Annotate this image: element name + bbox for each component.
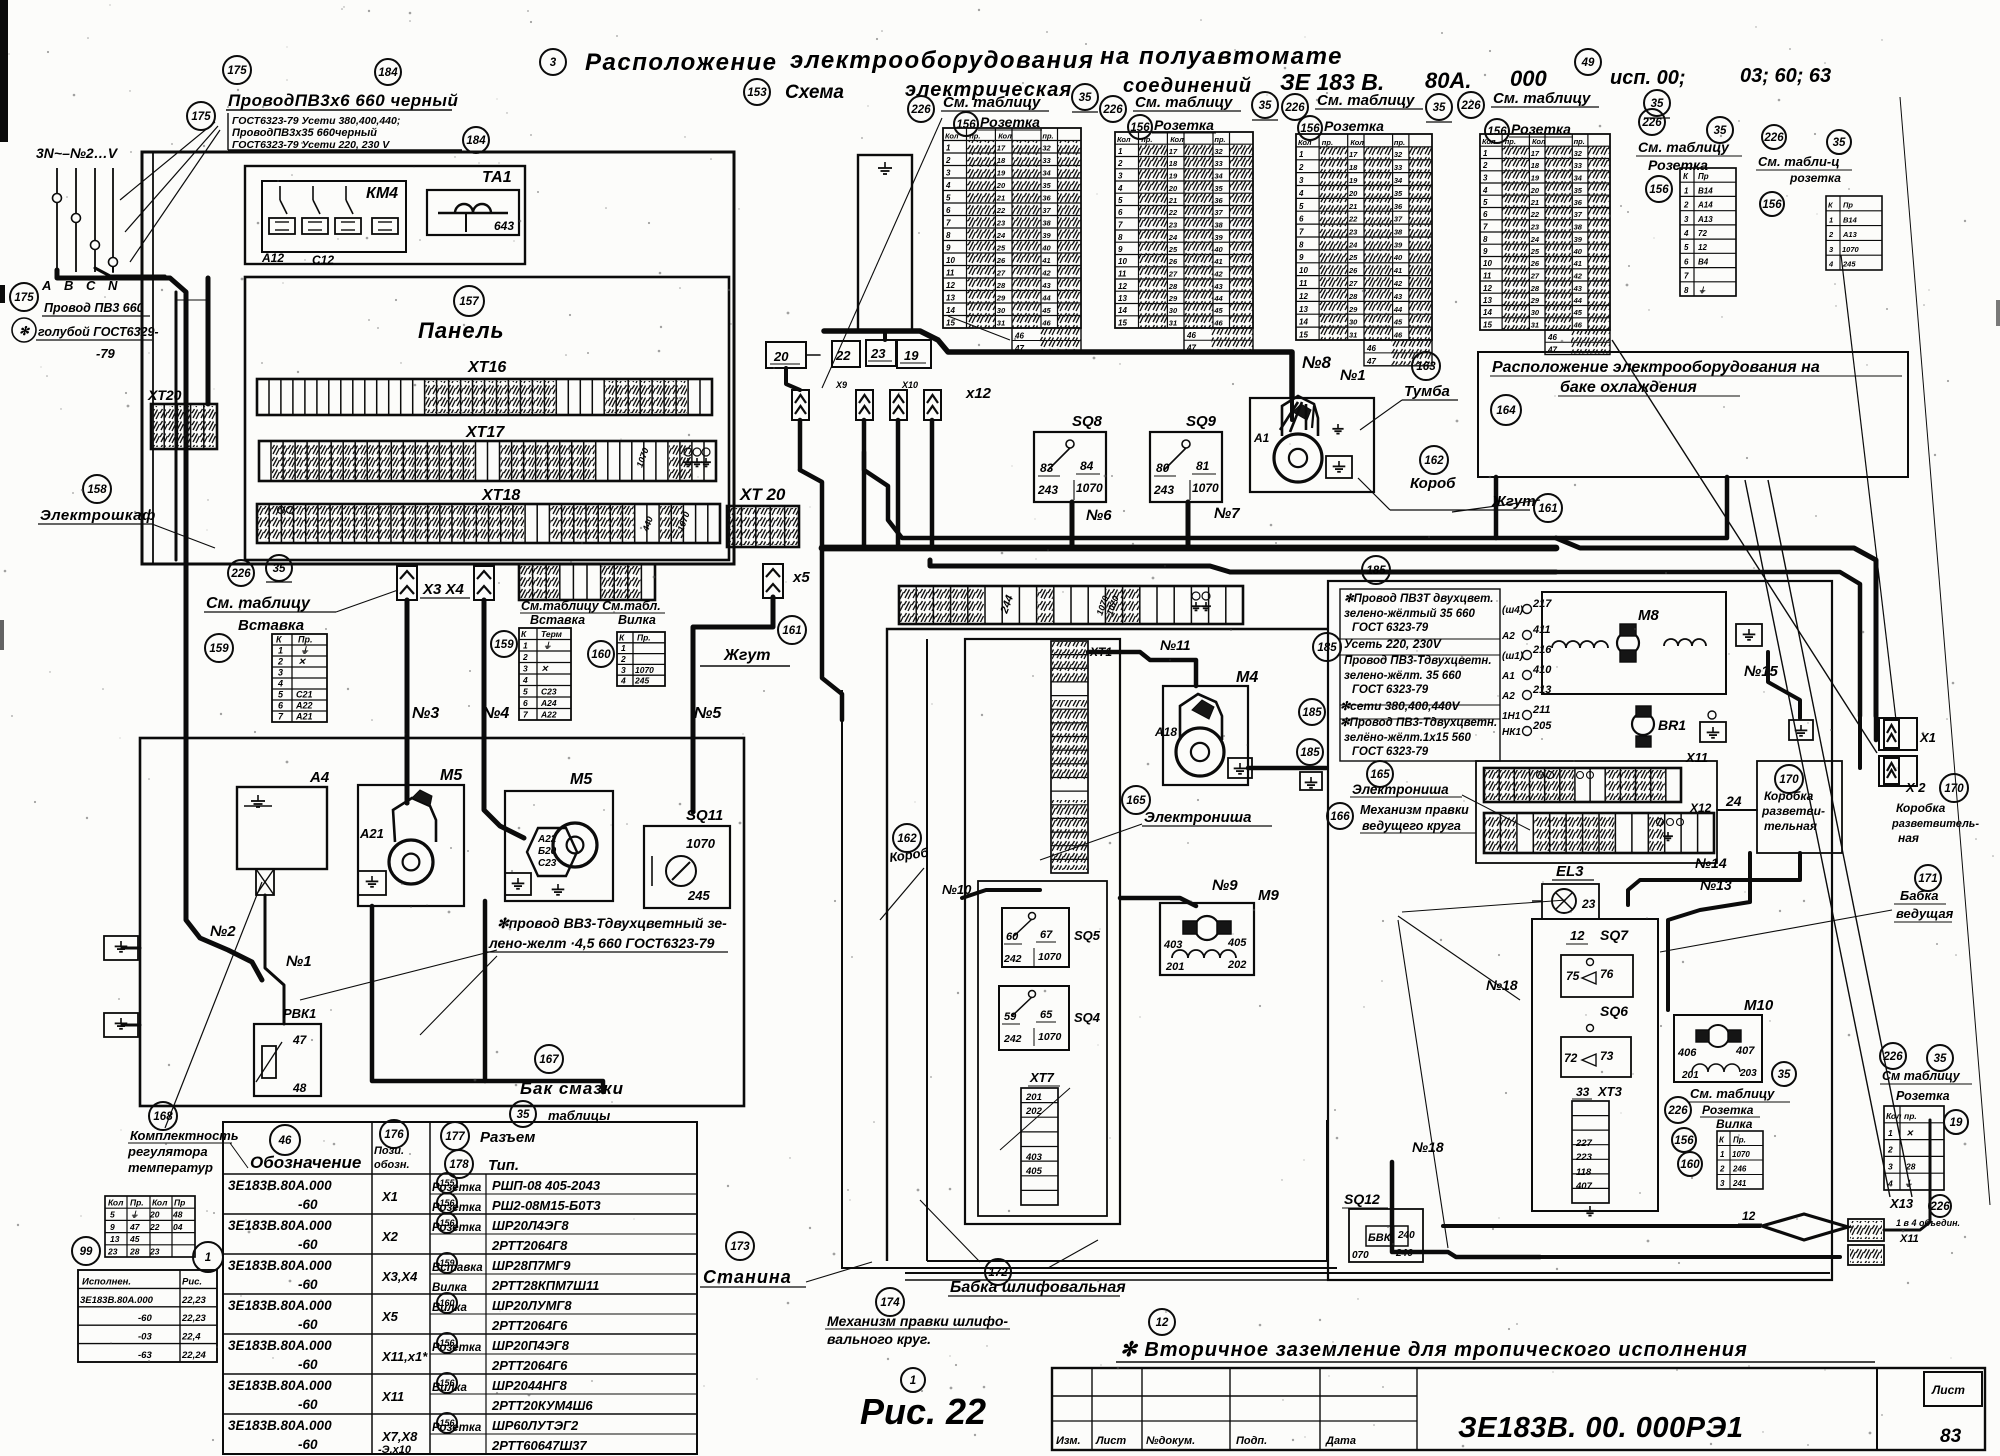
circle 35 M10 — [1772, 1062, 1796, 1086]
svg-text:45: 45 — [1393, 318, 1403, 327]
pin table T2 circle 226 — [1100, 96, 1126, 122]
terminal strip XT17 — [259, 441, 716, 481]
circle 1 — [193, 1242, 223, 1272]
svg-text:25: 25 — [1530, 247, 1540, 256]
svg-text:13: 13 — [110, 1234, 120, 1244]
svg-text:С12: С12 — [312, 253, 334, 267]
svg-text:000: 000 — [1510, 66, 1547, 91]
cooling tank note box — [1478, 352, 1908, 477]
svg-text:35: 35 — [1778, 1069, 1791, 1081]
svg-text:3Е183В.80А.000: 3Е183В.80А.000 — [228, 1298, 332, 1313]
terminal block XT20 left — [151, 404, 217, 449]
svg-text:29: 29 — [1168, 294, 1178, 303]
svg-text:См. таблицу: См. таблицу — [1317, 92, 1415, 109]
svg-text:Х2: Х2 — [381, 1229, 399, 1244]
svg-text:4: 4 — [277, 679, 283, 689]
svg-text:22,23: 22,23 — [181, 1295, 206, 1306]
svg-text:См таблицу: См таблицу — [1882, 1069, 1961, 1083]
svg-text:45: 45 — [1041, 306, 1051, 315]
svg-text:21: 21 — [1348, 202, 1357, 211]
svg-text:39: 39 — [1214, 233, 1223, 242]
label N2 — [210, 923, 236, 940]
svg-text:30: 30 — [997, 306, 1006, 315]
svg-text:166: 166 — [1330, 811, 1350, 823]
svg-text:-60: -60 — [298, 1397, 318, 1412]
svg-text:33: 33 — [1576, 1085, 1590, 1099]
svg-text:17: 17 — [1169, 147, 1178, 156]
svg-text:03; 60; 63: 03; 60; 63 — [1740, 65, 1831, 87]
svg-text:К: К — [619, 632, 625, 642]
stanina outer box — [842, 629, 1337, 1268]
label TA1 — [482, 169, 512, 186]
svg-text:22,23: 22,23 — [181, 1313, 206, 1324]
svg-text:Х13: Х13 — [1889, 1196, 1914, 1211]
svg-text:См. таблицу: См. таблицу — [1135, 94, 1233, 111]
svg-text:202: 202 — [1025, 1106, 1043, 1117]
switch SQ8 detail — [1037, 440, 1103, 500]
svg-text:Лист: Лист — [1931, 1383, 1965, 1397]
svg-text:12: 12 — [1118, 282, 1127, 291]
svg-text:403: 403 — [1025, 1152, 1043, 1163]
svg-text:14: 14 — [946, 306, 955, 315]
wire power to cabinet 2 — [95, 267, 176, 560]
wire N5 — [693, 597, 773, 812]
svg-text:18: 18 — [1349, 163, 1358, 172]
svg-text:Пр.: Пр. — [637, 632, 651, 642]
svg-text:ГОСТ6323-79 Усети 380,400,440;: ГОСТ6323-79 Усети 380,400,440; — [232, 115, 400, 127]
label 12 chev — [1738, 1209, 1762, 1224]
wire SQ9 drop — [1186, 502, 1191, 548]
pin table T4 rozetka — [1509, 121, 1573, 137]
label N18b — [1486, 977, 1518, 993]
svg-text:11: 11 — [1118, 270, 1127, 279]
svg-text:13: 13 — [1483, 296, 1492, 305]
svg-text:12: 12 — [1483, 284, 1492, 293]
svg-text:См. таблицу: См. таблицу — [206, 595, 311, 612]
svg-text:✕: ✕ — [298, 657, 306, 667]
svg-text:23: 23 — [1168, 221, 1178, 230]
svg-text:185: 185 — [1302, 707, 1322, 719]
svg-text:31: 31 — [1169, 319, 1177, 328]
svg-text:Вилка: Вилка — [432, 1382, 467, 1394]
circle 164 — [1491, 395, 1521, 425]
svg-text:226: 226 — [1460, 100, 1481, 112]
svg-text:7: 7 — [1299, 228, 1304, 237]
circle 156 T5 — [1646, 176, 1672, 202]
svg-text:168: 168 — [153, 1111, 173, 1123]
label N3 — [412, 705, 439, 722]
svg-text:22: 22 — [996, 206, 1006, 215]
svg-text:SQ7: SQ7 — [1600, 927, 1629, 943]
vstavka text a — [238, 617, 304, 634]
svg-text:35: 35 — [1214, 184, 1223, 193]
pin table T5 — [1680, 168, 1736, 296]
circle 166 — [1327, 803, 1353, 829]
svg-text:202: 202 — [1227, 959, 1246, 971]
svg-text:12: 12 — [1156, 1317, 1169, 1329]
svg-text:зелено-жёлтый 35 660: зелено-жёлтый 35 660 — [1344, 608, 1476, 620]
svg-text:ТА1: ТА1 — [482, 169, 512, 186]
svg-text:А14: А14 — [1697, 201, 1713, 210]
svg-text:Кол: Кол — [1117, 135, 1131, 144]
label A12 — [261, 251, 284, 265]
svg-text:22,4: 22,4 — [181, 1332, 201, 1343]
plug pin table 160 — [617, 632, 665, 686]
svg-text:ГОСТ 6323-79: ГОСТ 6323-79 — [1352, 684, 1429, 696]
tumba label — [1360, 383, 1458, 430]
svg-text:25: 25 — [996, 244, 1006, 253]
title block frame — [1052, 1368, 1985, 1450]
label M5a — [440, 767, 463, 784]
lubrication tank box — [140, 738, 744, 1106]
svg-text:Пр.: Пр. — [130, 1198, 144, 1208]
svg-text:23: 23 — [870, 346, 886, 361]
circle 165 right-trio — [1367, 761, 1393, 787]
circle 185d — [1297, 739, 1323, 765]
svg-text:15: 15 — [1118, 319, 1127, 328]
wire note VV3 — [487, 915, 728, 952]
svg-text:38: 38 — [1042, 219, 1051, 228]
svg-text:ШР20ЛУМГ8: ШР20ЛУМГ8 — [492, 1298, 572, 1313]
svg-text:Розетка: Розетка — [1154, 117, 1214, 133]
svg-text:Кол: Кол — [1482, 137, 1496, 146]
svg-text:2РТТ60647Ш37: 2РТТ60647Ш37 — [491, 1438, 587, 1453]
svg-text:178: 178 — [449, 1159, 469, 1171]
svg-text:3: 3 — [1299, 176, 1304, 185]
big table grid — [223, 1122, 697, 1454]
diagonal run 3 — [1768, 480, 1912, 1197]
label XT17 — [465, 424, 505, 441]
svg-text:3: 3 — [1118, 172, 1123, 181]
svg-text:173: 173 — [730, 1241, 750, 1253]
svg-text:-60: -60 — [298, 1317, 318, 1332]
svg-text:17: 17 — [997, 144, 1006, 153]
svg-text:№7: №7 — [1214, 505, 1240, 522]
wire note box — [228, 113, 462, 151]
svg-text:1: 1 — [1483, 149, 1488, 158]
label N13 — [1700, 877, 1732, 893]
svg-text:201: 201 — [1165, 961, 1184, 973]
komplekt text — [127, 1128, 248, 1175]
pin table right — [1884, 1106, 1944, 1190]
svg-text:SQ5: SQ5 — [1074, 928, 1101, 943]
svg-text:185: 185 — [1317, 642, 1337, 654]
svg-text:28: 28 — [1168, 282, 1178, 291]
svg-text:4: 4 — [1298, 189, 1304, 198]
label SQ4 — [1074, 1010, 1101, 1025]
diagonal run 5 — [1900, 97, 1990, 1205]
svg-text:-Э,х10: -Э,х10 — [378, 1444, 412, 1456]
label x12 — [965, 385, 992, 402]
svg-text:Механизм правки: Механизм правки — [1360, 803, 1469, 817]
svg-text:45: 45 — [1213, 306, 1223, 315]
circle 35 T5 — [1707, 117, 1733, 143]
svg-text:6: 6 — [1118, 208, 1123, 217]
svg-text:пр.: пр. — [969, 132, 980, 141]
label SQ6 — [1600, 1003, 1628, 1019]
svg-text:Станина: Станина — [703, 1267, 792, 1287]
svg-text:28: 28 — [996, 281, 1006, 290]
svg-text:BR1: BR1 — [1658, 717, 1686, 733]
svg-text:14: 14 — [1483, 308, 1492, 317]
svg-text:Х10: Х10 — [901, 380, 918, 390]
motor M5b box — [505, 791, 613, 901]
motor M9 box — [1160, 903, 1254, 975]
svg-text:Расположение электрооборудован: Расположение электрооборудования на — [1492, 359, 1820, 376]
fuse under A4 — [256, 869, 274, 895]
svg-text:ведущего круга: ведущего круга — [1362, 819, 1461, 833]
svg-text:10: 10 — [1299, 266, 1308, 275]
svg-text:(ш1): (ш1) — [1502, 651, 1524, 662]
label N9 — [1212, 877, 1238, 894]
svg-text:Розетка: Розетка — [1702, 1103, 1754, 1117]
svg-text:Пр.: Пр. — [1733, 1135, 1746, 1144]
svg-text:ХТ7: ХТ7 — [1029, 1070, 1055, 1085]
connector X1 right — [1879, 718, 1936, 750]
svg-text:Разъем: Разъем — [480, 1129, 535, 1146]
svg-text:Х11: Х11 — [1899, 1233, 1919, 1245]
svg-text:пр.: пр. — [1394, 138, 1405, 147]
label N4 — [482, 705, 509, 722]
svg-text:72: 72 — [1564, 1051, 1578, 1065]
wire 170 down — [1628, 853, 1800, 905]
pin table T2 circle 35 — [1252, 92, 1278, 120]
motor M9 symbol — [1163, 916, 1247, 973]
svg-text:45: 45 — [1573, 308, 1583, 317]
svg-text:См. табли-ц: См. табли-ц — [1758, 154, 1840, 169]
svg-text:3Е183В.80А.000: 3Е183В.80А.000 — [228, 1258, 332, 1273]
svg-text:№1: №1 — [1340, 367, 1366, 384]
svg-text:165: 165 — [1370, 769, 1390, 781]
circle 171 — [1915, 865, 1941, 891]
circle 185c — [1299, 699, 1325, 725]
circle 174 — [876, 1288, 904, 1316]
svg-text:405: 405 — [1227, 937, 1247, 949]
svg-text:Пр.: Пр. — [298, 635, 312, 645]
svg-text:45: 45 — [129, 1234, 140, 1244]
svg-text:40: 40 — [1213, 245, 1223, 254]
svg-text:29: 29 — [996, 294, 1006, 303]
title block number — [1458, 1412, 1744, 1444]
svg-text:1: 1 — [1299, 150, 1304, 159]
svg-text:24: 24 — [1168, 233, 1178, 242]
svg-text:47: 47 — [292, 1033, 308, 1047]
title circle 49 — [1575, 49, 1601, 75]
svg-text:83: 83 — [1040, 461, 1054, 475]
svg-text:Тумба: Тумба — [1404, 383, 1450, 400]
wire N10 — [962, 890, 1040, 898]
svg-text:24: 24 — [1348, 240, 1358, 249]
svg-text:пр.: пр. — [1214, 135, 1225, 144]
svg-text:Электрошкаф: Электрошкаф — [40, 507, 156, 524]
svg-text:12: 12 — [946, 281, 955, 290]
svg-text:20: 20 — [1348, 189, 1358, 198]
svg-text:32: 32 — [1214, 147, 1223, 156]
svg-text:1070: 1070 — [1732, 1150, 1750, 1159]
wire note circle 184a — [375, 59, 401, 85]
diagonal run 1 — [1612, 340, 1877, 753]
wire tank bottom run — [372, 901, 603, 1092]
svg-text:40: 40 — [1393, 253, 1403, 262]
device A4 box — [237, 787, 327, 869]
transformer TA1 box — [427, 190, 519, 235]
svg-text:тельная: тельная — [1764, 819, 1817, 833]
svg-text:Вилка: Вилка — [1716, 1117, 1753, 1131]
svg-text:34: 34 — [1042, 169, 1051, 178]
svg-text:✻сети 380,400,440V: ✻сети 380,400,440V — [1340, 699, 1460, 713]
svg-text:Обозначение: Обозначение — [250, 1153, 361, 1172]
tank ground stub 1 — [104, 936, 140, 960]
circle 19 right — [1944, 1110, 1968, 1134]
label C12 — [312, 253, 334, 267]
svg-text:43: 43 — [1393, 292, 1403, 301]
svg-text:SQ11: SQ11 — [686, 807, 723, 824]
pin table T2 see-table — [1133, 94, 1241, 111]
svg-text:42: 42 — [1041, 269, 1051, 278]
svg-text:2: 2 — [1482, 161, 1488, 170]
svg-text:-60: -60 — [298, 1437, 318, 1452]
title circle 153 — [744, 79, 770, 105]
rozetka right — [1896, 1089, 1950, 1103]
svg-text:3Е183В.80А.000: 3Е183В.80А.000 — [228, 1218, 332, 1233]
svg-text:201: 201 — [1025, 1092, 1042, 1103]
svg-text:6: 6 — [1299, 215, 1304, 224]
wire tumba feed — [1280, 398, 1314, 432]
mech label — [825, 1313, 1010, 1347]
svg-text:60: 60 — [1006, 931, 1019, 943]
switch SQ5 box — [1002, 908, 1069, 967]
svg-text:14: 14 — [1118, 306, 1127, 315]
svg-text:Вилка: Вилка — [618, 613, 656, 627]
svg-text:х12: х12 — [965, 385, 992, 402]
label SQ8 — [1072, 413, 1103, 430]
svg-text:41: 41 — [1041, 256, 1050, 265]
motor M5a ground — [358, 871, 386, 895]
svg-text:46: 46 — [1393, 331, 1403, 340]
svg-text:35: 35 — [1259, 100, 1272, 112]
svg-text:В14: В14 — [1843, 215, 1858, 224]
svg-text:33: 33 — [1214, 159, 1223, 168]
svg-text:164: 164 — [1496, 405, 1516, 417]
svg-text:29: 29 — [1530, 296, 1540, 305]
svg-text:158: 158 — [87, 484, 107, 496]
svg-text:✕: ✕ — [1906, 1128, 1914, 1138]
svg-text:Расположение: Расположение — [585, 49, 778, 76]
svg-text:13: 13 — [1118, 294, 1127, 303]
svg-text:1: 1 — [523, 641, 528, 651]
circle 167 — [535, 1045, 563, 1073]
svg-text:2РТТ2064Г6: 2РТТ2064Г6 — [491, 1358, 568, 1373]
svg-text:№3: №3 — [412, 705, 439, 722]
pin table M10 — [1717, 1131, 1763, 1189]
svg-text:41: 41 — [1213, 257, 1222, 266]
switch SQ12 label — [1342, 1191, 1388, 1208]
big table content — [228, 1173, 601, 1456]
svg-text:1: 1 — [910, 1375, 916, 1387]
svg-text:175: 175 — [227, 65, 247, 77]
circle 163 — [1412, 352, 1440, 380]
svg-text:SQ9: SQ9 — [1186, 413, 1217, 430]
svg-text:36: 36 — [1214, 196, 1223, 205]
svg-text:34: 34 — [1394, 176, 1403, 185]
switch SQ9 detail — [1153, 440, 1219, 500]
svg-text:245: 245 — [687, 888, 710, 903]
label N6 — [1086, 507, 1112, 524]
svg-text:3: 3 — [1684, 215, 1689, 224]
svg-text:11: 11 — [1483, 272, 1492, 281]
see-table text b — [520, 599, 665, 613]
contactor KM4 inner box — [262, 181, 406, 252]
cabinet box — [142, 152, 734, 564]
svg-text:3Е183В.80А.000: 3Е183В.80А.000 — [228, 1418, 332, 1433]
svg-text:59: 59 — [1004, 1011, 1017, 1023]
niche callout — [1000, 1088, 1070, 1150]
svg-text:185: 185 — [1366, 565, 1386, 577]
svg-text:Лист: Лист — [1095, 1435, 1126, 1447]
see-table text a — [204, 590, 398, 612]
svg-text:25: 25 — [1168, 245, 1178, 254]
svg-text:22: 22 — [149, 1222, 160, 1232]
svg-text:См. таблицу: См. таблицу — [1493, 90, 1591, 107]
svg-text:Подп.: Подп. — [1236, 1435, 1267, 1447]
svg-text:Рис.: Рис. — [182, 1276, 202, 1287]
svg-text:электрооборудования: электрооборудования — [790, 47, 1094, 74]
svg-text:SQ4: SQ4 — [1074, 1010, 1101, 1025]
pin table T1 circle 35 — [1072, 84, 1098, 112]
svg-text:10: 10 — [946, 256, 955, 265]
svg-text:20: 20 — [1168, 184, 1178, 193]
svg-text:Усеть 220, 230V: Усеть 220, 230V — [1344, 637, 1442, 651]
svg-text:1070: 1070 — [1038, 951, 1062, 963]
svg-text:Х7,Х8: Х7,Х8 — [381, 1429, 418, 1444]
svg-text:Х11: Х11 — [381, 1389, 404, 1404]
label A21 — [359, 826, 384, 841]
svg-text:№11: №11 — [1160, 637, 1191, 653]
svg-text:30: 30 — [1531, 308, 1540, 317]
svg-text:баке охлаждения: баке охлаждения — [1560, 379, 1697, 396]
svg-text:№14: №14 — [1695, 855, 1727, 871]
svg-text:27: 27 — [996, 269, 1006, 278]
svg-text:Х11: Х11 — [1685, 750, 1708, 765]
svg-text:21: 21 — [996, 194, 1005, 203]
svg-text:3Е183В.80А.000: 3Е183В.80А.000 — [228, 1378, 332, 1393]
svg-text:185: 185 — [1300, 747, 1320, 759]
see-table T6 — [1756, 154, 1852, 185]
zhgut label b — [1452, 493, 1540, 512]
big table header text — [250, 1108, 610, 1174]
svg-text:36: 36 — [1042, 194, 1051, 203]
svg-text:15: 15 — [946, 319, 955, 328]
svg-text:26: 26 — [1168, 257, 1178, 266]
svg-text:159: 159 — [494, 639, 514, 651]
box 185 — [1328, 581, 1832, 1280]
svg-text:ЗЕ183В. 00. 000РЭ1: ЗЕ183В. 00. 000РЭ1 — [1458, 1412, 1744, 1444]
svg-text:83: 83 — [1940, 1426, 1962, 1447]
svg-text:№5: №5 — [694, 705, 722, 722]
label N1 tumba — [1340, 367, 1366, 384]
svg-text:3: 3 — [1888, 1162, 1893, 1172]
svg-text:172: 172 — [988, 1267, 1008, 1279]
svg-text:М5: М5 — [570, 771, 593, 788]
svg-text:23: 23 — [996, 219, 1006, 228]
label XT18 — [481, 487, 520, 504]
svg-text:27: 27 — [1530, 272, 1540, 281]
svg-text:153: 153 — [747, 87, 767, 99]
svg-text:44: 44 — [1041, 294, 1051, 303]
label 24 — [1722, 793, 1752, 810]
korob label a — [1410, 475, 1456, 492]
svg-text:19: 19 — [1531, 174, 1540, 183]
